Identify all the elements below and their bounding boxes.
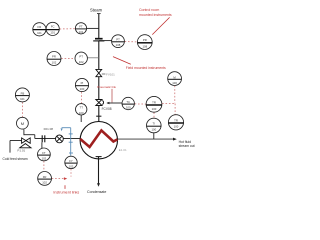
svg-text:PR: PR [143, 38, 147, 42]
svg-text:TR: TR [152, 100, 156, 104]
signal red dashed F to G [61, 57, 75, 59]
svg-text:TC: TC [126, 100, 130, 104]
wire PT102 to steam pipe [87, 57, 99, 59]
wire feed pipe left segment [10, 140, 21, 142]
svg-text:102: 102 [42, 181, 47, 185]
instrument FC101 B [46, 22, 59, 35]
svg-text:108: 108 [142, 44, 147, 48]
annotation leader field mounted [113, 57, 131, 65]
valve control FCV on steam line [96, 100, 104, 106]
signal red dashed L down to corner [174, 86, 176, 104]
wire feed pipe jog top [24, 134, 35, 136]
orifice plate FE on steam line [93, 39, 104, 41]
instrument PT108 D [112, 35, 125, 48]
svg-text:FR: FR [43, 175, 47, 179]
instrument M100 L [168, 72, 182, 86]
instrument TC100 H [122, 97, 134, 109]
svg-text:stream out: stream out [179, 144, 195, 148]
capillary blue link to dp cell [62, 128, 73, 156]
svg-text:FR: FR [38, 25, 42, 29]
chord line through A and B [33, 29, 60, 31]
svg-text:101: 101 [37, 31, 42, 35]
wire tap line to transmitter D [99, 40, 112, 42]
instrument FR102 [38, 172, 52, 186]
annotation leader pneumatic [111, 89, 113, 103]
svg-text:P1.01: P1.01 [17, 149, 25, 153]
svg-text:PR: PR [52, 55, 56, 59]
wire TT stem to vessel [80, 115, 82, 122]
svg-text:Instrument links: Instrument links [53, 190, 79, 194]
svg-text:E1.01: E1.01 [119, 148, 127, 152]
wire feed pipe jog drop [34, 135, 36, 139]
signal red dashed I to corner [162, 103, 175, 105]
svg-text:FB: FB [21, 92, 25, 96]
svg-text:F01 08: F01 08 [44, 127, 54, 131]
wire feed pipe right segment [35, 138, 80, 140]
valve isolation gate on steam line [96, 69, 102, 76]
wire condensate pipe [98, 157, 100, 184]
signal red dashed FT to FR [43, 161, 45, 171]
signal red dashed Mc down [70, 169, 72, 177]
svg-text:100: 100 [151, 128, 156, 132]
instrument PT102 G [75, 52, 87, 64]
wire tick above vessel [96, 115, 101, 117]
svg-text:102: 102 [69, 165, 74, 169]
svg-text:102: 102 [52, 60, 57, 64]
orifice plate on feed line [42, 135, 45, 142]
instrument FY102 Mc [65, 156, 77, 168]
instrument TR100 J [168, 115, 183, 130]
capillary blue arrowhead [61, 128, 63, 131]
instrument PI100 [75, 78, 88, 91]
wire tap line orifice to FT [41, 142, 43, 148]
svg-text:100: 100 [172, 81, 177, 85]
valve feed gate with motor stem [22, 138, 31, 143]
svg-text:PT: PT [79, 54, 83, 58]
svg-text:102: 102 [42, 157, 47, 161]
instrument PR108 E [137, 35, 152, 50]
svg-text:TT: TT [79, 106, 83, 110]
svg-text:FT: FT [79, 24, 83, 28]
wire feed pipe inlet drop [9, 141, 11, 153]
svg-text:100: 100 [174, 125, 179, 129]
node product arrow [173, 138, 177, 141]
wire valve side tick [102, 73, 106, 75]
svg-text:mounted instruments: mounted instruments [139, 13, 172, 17]
signal red dashed D to E [125, 41, 138, 43]
svg-text:100: 100 [79, 111, 84, 115]
instrument FR101 A [33, 23, 46, 36]
svg-text:Pneumatic link: Pneumatic link [97, 85, 116, 89]
annotation leader instrument links [64, 185, 66, 189]
wire FT101 to steam pipe [86, 27, 98, 29]
wire steam pipe mid2 [98, 77, 100, 100]
svg-text:Cold feed stream: Cold feed stream [3, 157, 28, 161]
signal red dashed PI102 to M [21, 102, 23, 117]
node condensate arrow [97, 183, 100, 187]
signal red dashed H to I [135, 103, 146, 105]
instrument PR102 F [47, 52, 61, 66]
wire TT stem to product line [153, 133, 155, 139]
instrument FT101 C [75, 23, 86, 34]
svg-text:M: M [21, 121, 24, 126]
svg-text:Hot fluid: Hot fluid [179, 140, 192, 144]
wire product pipe [118, 138, 174, 140]
svg-text:FV101: FV101 [106, 72, 115, 76]
svg-text:PI: PI [81, 81, 84, 85]
svg-text:Steam: Steam [90, 7, 103, 12]
instrument FT102 [38, 148, 51, 161]
svg-text:101: 101 [50, 31, 55, 35]
svg-text:TR: TR [174, 118, 178, 122]
svg-text:Condensate: Condensate [87, 190, 106, 194]
svg-text:TI: TI [153, 122, 156, 126]
instrument PI102 left column [15, 88, 29, 102]
wire steam pipe upper [98, 14, 100, 38]
svg-text:102: 102 [79, 60, 84, 64]
wire condensate tick [96, 156, 102, 158]
signal red arrowhead [64, 177, 67, 180]
signal red dashed FR to right [52, 178, 64, 180]
wire signal line controller to valve [107, 102, 122, 104]
pump base triangle [20, 144, 31, 148]
signal red dashed B to C [22, 29, 175, 179]
instrument M motor [17, 117, 29, 129]
instrument TR100 I [146, 96, 162, 112]
signal red dashed PI to TT [81, 92, 83, 104]
svg-text:100: 100 [152, 107, 157, 111]
wire steam pipe lower [98, 106, 100, 122]
svg-text:FC: FC [51, 25, 55, 29]
svg-text:100: 100 [126, 106, 131, 110]
wire steam pipe top tick [97, 13, 101, 15]
svg-text:PT: PT [116, 37, 120, 41]
svg-text:FT: FT [42, 151, 46, 155]
instrument TT100 K [147, 118, 162, 133]
wire steam pipe mid1 [98, 41, 100, 69]
signal red dashed corner to J [174, 104, 176, 115]
svg-text:Control room: Control room [139, 8, 159, 12]
heater vessel E101 [80, 122, 117, 159]
svg-text:FY: FY [69, 159, 73, 163]
svg-text:108: 108 [116, 43, 121, 47]
svg-text:Field mounted instruments: Field mounted instruments [126, 66, 166, 70]
instrument TT100 [76, 104, 87, 115]
svg-text:101: 101 [20, 97, 25, 101]
svg-text:100: 100 [80, 87, 85, 91]
wire valve stem from M [23, 129, 25, 135]
flow element circle-X on feed line [56, 135, 64, 143]
signal red dashed I to K [153, 112, 155, 118]
heating coil zigzag [80, 130, 117, 147]
svg-text:101: 101 [79, 30, 84, 34]
svg-text:FCV08: FCV08 [102, 107, 112, 111]
annotation leader control room [152, 17, 169, 34]
